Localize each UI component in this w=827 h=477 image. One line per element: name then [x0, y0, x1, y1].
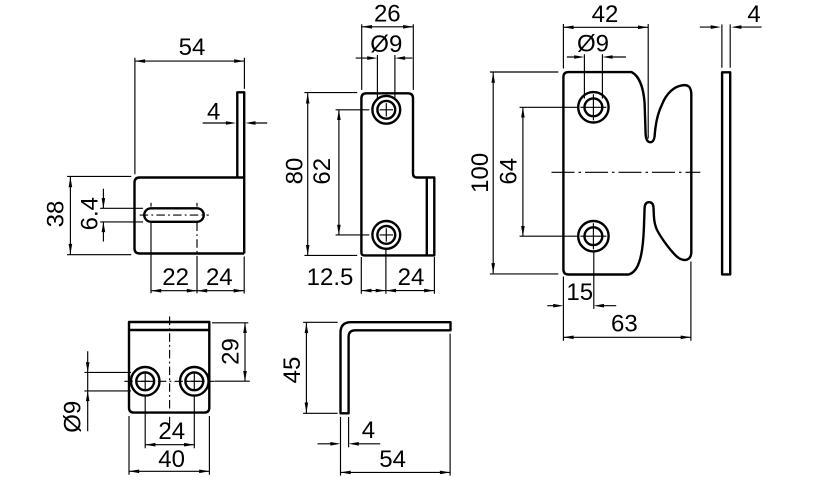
svg-text:40: 40 [158, 446, 185, 473]
svg-text:24: 24 [398, 264, 425, 291]
svg-text:24: 24 [206, 264, 233, 291]
svg-text:12.5: 12.5 [307, 264, 354, 291]
svg-text:26: 26 [374, 1, 401, 28]
svg-text:63: 63 [611, 310, 638, 337]
svg-text:Ø9: Ø9 [577, 31, 609, 58]
svg-text:4: 4 [747, 1, 760, 28]
svg-text:38: 38 [43, 201, 70, 228]
svg-text:24: 24 [158, 418, 185, 445]
svg-text:4: 4 [362, 417, 375, 444]
svg-text:Ø9: Ø9 [60, 401, 87, 433]
svg-text:80: 80 [282, 158, 309, 185]
svg-text:6.4: 6.4 [77, 197, 104, 230]
svg-text:29: 29 [218, 338, 245, 365]
svg-text:22: 22 [162, 264, 189, 291]
svg-text:15: 15 [566, 279, 593, 306]
svg-text:45: 45 [279, 357, 306, 384]
svg-text:54: 54 [179, 34, 206, 61]
svg-text:64: 64 [496, 158, 523, 185]
svg-text:62: 62 [309, 158, 336, 185]
svg-text:4: 4 [207, 98, 220, 125]
svg-text:Ø9: Ø9 [370, 31, 402, 58]
svg-text:100: 100 [467, 153, 494, 193]
svg-text:42: 42 [592, 1, 619, 28]
svg-text:54: 54 [379, 446, 406, 473]
